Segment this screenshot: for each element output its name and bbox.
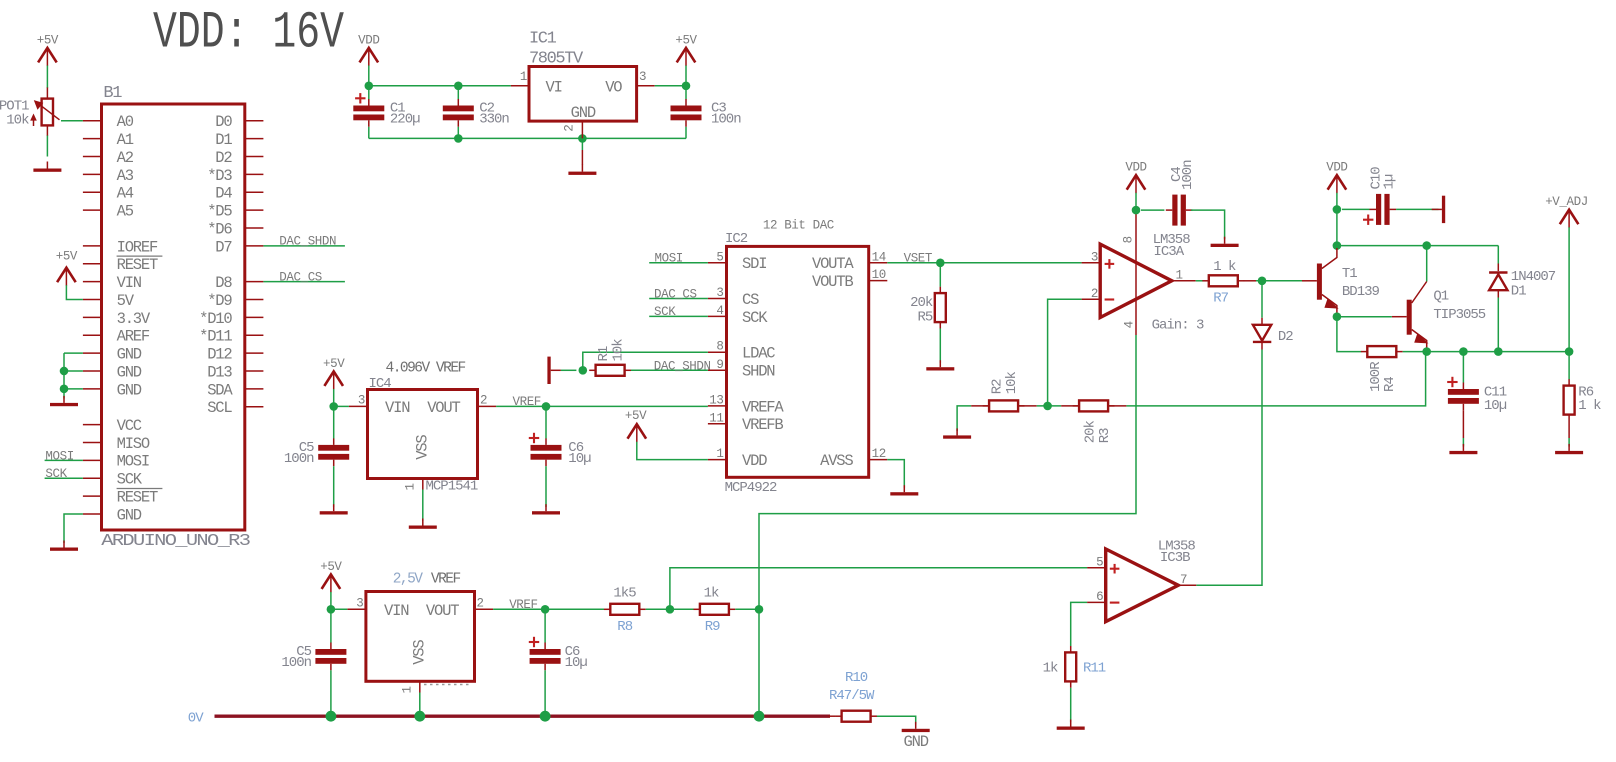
0V bus (215, 715, 831, 718)
svg-text:VSS: VSS (414, 435, 432, 460)
ground below C5 (320, 504, 348, 514)
wire (649, 262, 708, 264)
ground below R11 (1057, 720, 1085, 730)
svg-text:10µ: 10µ (565, 655, 588, 671)
wire (419, 693, 421, 717)
wire (330, 670, 332, 716)
wire (1462, 352, 1464, 383)
junction (1333, 241, 1342, 250)
wire (1337, 317, 1361, 352)
svg-text:RESET: RESET (117, 256, 158, 274)
svg-text:2,5V: 2,5V (393, 571, 424, 587)
wire (1336, 313, 1338, 317)
wire (759, 335, 1136, 609)
svg-text:220µ: 220µ (390, 111, 420, 127)
svg-text:+V_ADJ: +V_ADJ (1545, 195, 1588, 209)
ground below R2 (943, 428, 971, 438)
svg-text:*D11: *D11 (199, 328, 232, 346)
svg-text:R3: R3 (1097, 428, 1113, 443)
ground below IC4 VSS (409, 519, 437, 529)
svg-text:5: 5 (1096, 555, 1103, 569)
svg-text:*D10: *D10 (199, 310, 232, 328)
wire (685, 66, 687, 86)
wire (333, 406, 335, 438)
wire (64, 352, 83, 354)
VDD supply at IC1 (358, 33, 379, 66)
svg-text:VIN: VIN (385, 399, 410, 417)
rotated ground at R1 (547, 357, 561, 384)
svg-text:VO: VO (605, 79, 622, 97)
wire (1048, 299, 1082, 406)
wire (1426, 246, 1428, 282)
svg-text:MOSI: MOSI (45, 449, 73, 463)
svg-text:DAC_CS: DAC_CS (654, 287, 697, 301)
ground below B1 GND pins (50, 396, 78, 406)
wire (64, 388, 83, 390)
svg-text:VI: VI (546, 79, 562, 97)
wire (1426, 348, 1428, 352)
wire (670, 568, 1087, 610)
svg-text:RESET: RESET (117, 488, 158, 506)
svg-text:VREF: VREF (509, 598, 537, 612)
junction (454, 82, 463, 91)
svg-text:D8: D8 (215, 274, 232, 292)
svg-text:1: 1 (401, 686, 415, 693)
svg-text:12: 12 (872, 447, 886, 461)
IC5 2.5V reference (347, 571, 493, 693)
svg-text:2: 2 (563, 125, 577, 132)
svg-text:1: 1 (520, 70, 527, 84)
svg-text:MCP4922: MCP4922 (725, 480, 777, 496)
wire (649, 315, 708, 317)
wire (545, 466, 547, 507)
junction (579, 366, 588, 375)
op-amp U IC3B LM358 (1087, 538, 1196, 621)
svg-text:1µ: 1µ (1382, 174, 1398, 189)
svg-text:1: 1 (404, 483, 418, 490)
+5V supply at POT1 (37, 33, 59, 66)
wire (61, 120, 83, 122)
svg-text:DAC_CS: DAC_CS (279, 270, 322, 284)
ground below IC1 (568, 165, 596, 175)
svg-text:100n: 100n (1180, 160, 1196, 190)
svg-text:IC3A: IC3A (1154, 244, 1185, 260)
svg-text:100n: 100n (284, 451, 314, 467)
junction (755, 605, 764, 614)
junction (682, 82, 691, 91)
svg-text:SDI: SDI (742, 255, 766, 273)
svg-text:IC3B: IC3B (1160, 550, 1190, 566)
wire (887, 262, 1081, 264)
svg-text:2: 2 (1091, 287, 1098, 301)
wire (63, 353, 65, 398)
junction (1333, 205, 1342, 214)
junction (327, 605, 336, 614)
svg-text:D2: D2 (215, 149, 232, 167)
wire (46, 136, 48, 157)
VDD supply at IC3A (1125, 161, 1146, 194)
svg-text:D12: D12 (207, 346, 232, 364)
wire (1037, 405, 1062, 407)
wire (1061, 405, 1079, 407)
resistor R1 10k (589, 339, 631, 376)
svg-text:VDD: VDD (1326, 161, 1347, 175)
svg-text:7: 7 (1180, 573, 1187, 587)
svg-text:GND: GND (117, 363, 142, 381)
wire (1403, 351, 1569, 353)
svg-text:10k: 10k (1004, 371, 1020, 394)
svg-text:GND: GND (117, 346, 142, 364)
svg-text:*D9: *D9 (207, 292, 232, 310)
svg-text:3: 3 (356, 596, 363, 610)
svg-text:+5V: +5V (320, 560, 342, 574)
capacitor C5 100n lower (281, 643, 346, 672)
svg-text:VOUT: VOUT (427, 399, 460, 417)
IC4 MCP1541 4.096V reference (349, 360, 496, 494)
svg-text:SCK: SCK (117, 471, 143, 489)
potentiometer POT1 10k (0, 87, 60, 136)
resistor R11 1k (1043, 646, 1106, 688)
svg-text:T1: T1 (1342, 266, 1357, 282)
junction (1565, 347, 1574, 356)
junction (542, 402, 551, 411)
svg-text:VREF: VREF (431, 571, 461, 587)
svg-text:5V: 5V (117, 292, 135, 310)
svg-text:VSET: VSET (904, 252, 933, 266)
wire (64, 370, 83, 372)
wire (1497, 246, 1499, 264)
capacitor C6 10u lower (529, 637, 588, 671)
svg-text:3: 3 (358, 394, 365, 408)
wire (971, 405, 989, 407)
svg-text:+5V: +5V (37, 33, 59, 47)
svg-text:4: 4 (1123, 321, 1137, 328)
svg-text:R47/5W: R47/5W (829, 688, 875, 704)
svg-text:VOUT: VOUT (426, 602, 459, 620)
svg-text:B1: B1 (103, 84, 122, 103)
transistor T1 BD139 (1302, 248, 1380, 313)
junction (60, 385, 69, 394)
capacitor C11 10u (1447, 377, 1507, 414)
capacitor C10 1u (1363, 167, 1398, 225)
svg-text:MISO: MISO (117, 435, 150, 453)
wire (1568, 227, 1570, 379)
svg-text:4: 4 (716, 304, 723, 318)
IC B1 ARDUINO_UNO_R3 (83, 84, 264, 551)
wire (457, 86, 459, 99)
wire (1071, 602, 1087, 646)
svg-text:A0: A0 (117, 113, 134, 131)
wire (330, 592, 332, 609)
svg-text:VIN: VIN (384, 602, 409, 620)
capacitor C6 10u (529, 433, 591, 467)
+5V supply at IC1 output (675, 33, 697, 66)
svg-text:10: 10 (872, 268, 886, 282)
wire (957, 406, 971, 431)
resistor R9 1k (694, 586, 736, 635)
junction (1333, 312, 1342, 321)
wire (828, 715, 835, 717)
svg-text:A5: A5 (117, 203, 134, 221)
wire (631, 369, 708, 371)
svg-text:MOSI: MOSI (117, 453, 149, 471)
svg-text:R9: R9 (705, 619, 720, 635)
svg-text:12 Bit DAC: 12 Bit DAC (763, 218, 834, 232)
svg-text:DAC_SHDN: DAC_SHDN (279, 235, 336, 249)
svg-text:CS: CS (742, 291, 759, 309)
wire (887, 460, 904, 488)
svg-text:1: 1 (716, 447, 723, 461)
svg-text:A4: A4 (117, 185, 134, 203)
ground below R5 (926, 360, 954, 370)
+5V supply at IC4 (323, 357, 345, 390)
svg-text:0V: 0V (188, 710, 204, 726)
junction (454, 134, 463, 143)
svg-text:VOUTA: VOUTA (812, 255, 854, 273)
svg-text:VOUTB: VOUTB (812, 273, 853, 291)
wire (1108, 405, 1127, 407)
wire (1256, 280, 1302, 282)
svg-text:TIP3055: TIP3055 (1433, 307, 1485, 323)
junction (1258, 277, 1267, 286)
svg-text:A2: A2 (117, 149, 134, 167)
wire (646, 608, 694, 610)
wire (457, 127, 459, 139)
svg-text:D0: D0 (215, 113, 232, 131)
svg-text:Gain: 3: Gain: 3 (1152, 317, 1204, 333)
svg-text:3: 3 (1091, 250, 1098, 264)
svg-text:10µ: 10µ (1484, 398, 1507, 414)
wire (333, 466, 335, 507)
wire (1497, 298, 1499, 352)
ground below R6 (1555, 444, 1583, 454)
svg-text:SHDN: SHDN (742, 363, 775, 381)
svg-text:IOREF: IOREF (117, 238, 158, 256)
svg-text:VDD: VDD (742, 452, 767, 470)
svg-text:IC4: IC4 (369, 376, 392, 392)
svg-text:IC1: IC1 (529, 30, 557, 49)
svg-text:8: 8 (1122, 236, 1136, 243)
wire (369, 137, 686, 139)
svg-text:11: 11 (709, 411, 723, 425)
wire (685, 86, 687, 99)
wire (544, 670, 546, 716)
wire (1196, 350, 1262, 586)
wire (735, 608, 759, 610)
svg-text:SCK: SCK (742, 309, 768, 327)
svg-text:1 k: 1 k (1213, 259, 1236, 275)
svg-text:GND: GND (117, 381, 142, 399)
svg-text:4.096V VREF: 4.096V VREF (386, 360, 466, 376)
svg-text:9: 9 (716, 358, 723, 372)
svg-text:100n: 100n (711, 111, 741, 127)
wire (1126, 352, 1425, 406)
wire (939, 263, 941, 287)
svg-text:VREF: VREF (513, 395, 541, 409)
wire (581, 128, 583, 139)
svg-text:SDA: SDA (207, 381, 233, 399)
svg-text:D2: D2 (1278, 329, 1293, 345)
svg-text:*D5: *D5 (207, 203, 232, 221)
junction (1043, 402, 1052, 411)
wire (1141, 209, 1164, 211)
ground below C11 (1449, 444, 1477, 454)
wire (496, 405, 708, 407)
wire (637, 442, 708, 460)
junction (1459, 347, 1468, 356)
ground below C6 (532, 504, 560, 514)
junction (365, 82, 374, 91)
resistor R5 20k (910, 287, 946, 329)
wire (1342, 208, 1370, 210)
capacitor C1 220u (353, 93, 420, 127)
junction (60, 367, 69, 376)
svg-text:3.3V: 3.3V (117, 310, 151, 328)
svg-text:14: 14 (872, 250, 886, 264)
svg-text:D1: D1 (1511, 284, 1526, 300)
svg-text:GND: GND (117, 506, 142, 524)
svg-text:VDD: VDD (1125, 161, 1146, 175)
svg-text:10µ: 10µ (568, 451, 591, 467)
wire (369, 85, 511, 87)
ground below AVSS (890, 485, 918, 495)
resistor R7 1k (1202, 259, 1244, 307)
svg-text:10k: 10k (6, 113, 29, 129)
+V_ADJ supply (1545, 195, 1588, 228)
junction (1422, 347, 1431, 356)
svg-text:LDAC: LDAC (742, 345, 775, 363)
junction (1422, 241, 1431, 250)
resistor R4 100R (1361, 346, 1403, 392)
junction on bus (326, 711, 337, 722)
svg-text:MCP1541: MCP1541 (426, 479, 478, 495)
svg-text:R8: R8 (617, 619, 632, 635)
wire (1135, 193, 1137, 214)
svg-text:D7: D7 (215, 238, 232, 256)
wire (368, 127, 370, 139)
svg-text:*D3: *D3 (207, 167, 232, 185)
wire (581, 150, 583, 165)
junction (541, 605, 550, 614)
svg-text:*D6: *D6 (207, 220, 232, 238)
svg-text:+5V: +5V (56, 250, 78, 264)
svg-text:DAC_SHDN: DAC_SHDN (654, 359, 711, 373)
svg-text:13: 13 (709, 393, 723, 407)
svg-text:VDD: VDD (358, 33, 379, 47)
diode D1 1N4007 (1489, 264, 1556, 300)
transistor Q1 TIP3055 (1392, 282, 1486, 348)
svg-text:330n: 330n (479, 111, 509, 127)
wire (493, 608, 604, 610)
junction on bus (540, 711, 551, 722)
+5V supply at B1 5V pin (56, 250, 78, 286)
wire (1462, 438, 1464, 447)
capacitor C3 100n (671, 99, 742, 127)
svg-text:SCK: SCK (654, 305, 676, 319)
junction (1494, 347, 1503, 356)
svg-text:2: 2 (477, 596, 484, 610)
svg-text:8: 8 (716, 340, 723, 354)
wire (649, 298, 708, 300)
wire (331, 608, 347, 610)
svg-text:3: 3 (716, 286, 723, 300)
svg-text:R10: R10 (845, 670, 868, 686)
VDD supply at T1 (1326, 161, 1347, 194)
svg-text:6: 6 (1096, 590, 1103, 604)
junction (578, 134, 587, 143)
rotated ground right of C10 (1432, 196, 1446, 223)
svg-text:GND: GND (571, 104, 596, 122)
wire (544, 609, 546, 642)
wire (561, 369, 577, 371)
+5V supply at IC2 VDD (625, 409, 647, 442)
wire (1462, 410, 1464, 438)
resistor R10 R47/5W (829, 670, 877, 722)
svg-text:R11: R11 (1083, 660, 1106, 676)
wire (66, 285, 83, 299)
wire (45, 459, 83, 461)
wire (1337, 245, 1498, 247)
junction (329, 402, 338, 411)
svg-text:100n: 100n (281, 655, 311, 671)
svg-text:R4: R4 (1382, 377, 1398, 392)
svg-text:5: 5 (716, 250, 723, 264)
wire (64, 514, 83, 543)
wire (1396, 208, 1438, 210)
wire (368, 66, 370, 86)
wire (1070, 688, 1072, 722)
svg-text:VREFA: VREFA (742, 398, 784, 416)
svg-text:1 k: 1 k (1578, 398, 1601, 414)
wire (583, 352, 708, 370)
wire (545, 406, 547, 438)
capacitor C2 330n (443, 99, 510, 127)
svg-text:BD139: BD139 (1342, 284, 1380, 300)
junction (936, 259, 945, 268)
wire (334, 405, 349, 407)
resistor R8 1k5 (604, 586, 646, 635)
ground below B1 bottom GND (50, 541, 78, 551)
wire (1568, 438, 1570, 447)
wire (1336, 193, 1338, 246)
svg-text:AVSS: AVSS (820, 452, 853, 470)
wire (877, 716, 916, 724)
svg-text:+5V: +5V (675, 33, 697, 47)
IC2 MCP4922 12-bit DAC (708, 218, 887, 496)
wire (685, 127, 687, 139)
wire (1018, 405, 1037, 407)
svg-text:VREFB: VREFB (742, 416, 783, 434)
svg-text:GND: GND (904, 733, 929, 751)
op-amp U IC3A LM358 (1082, 214, 1204, 336)
resistor R3 20k (1073, 400, 1115, 443)
wire (330, 609, 332, 642)
svg-text:IC2: IC2 (725, 231, 748, 247)
junction (1132, 206, 1141, 215)
svg-text:+5V: +5V (323, 357, 345, 371)
junction on bus (754, 711, 765, 722)
resistor R6 1k (1564, 379, 1602, 421)
wire (1244, 280, 1256, 282)
svg-text:3: 3 (639, 70, 646, 84)
svg-text:MOSI: MOSI (655, 252, 683, 266)
capacitor C4 100n (1166, 160, 1196, 226)
svg-text:VCC: VCC (117, 417, 142, 435)
svg-text:D1: D1 (215, 131, 232, 149)
svg-text:SCL: SCL (207, 399, 232, 417)
svg-text:VSS: VSS (411, 640, 429, 665)
svg-text:1k: 1k (704, 586, 719, 602)
